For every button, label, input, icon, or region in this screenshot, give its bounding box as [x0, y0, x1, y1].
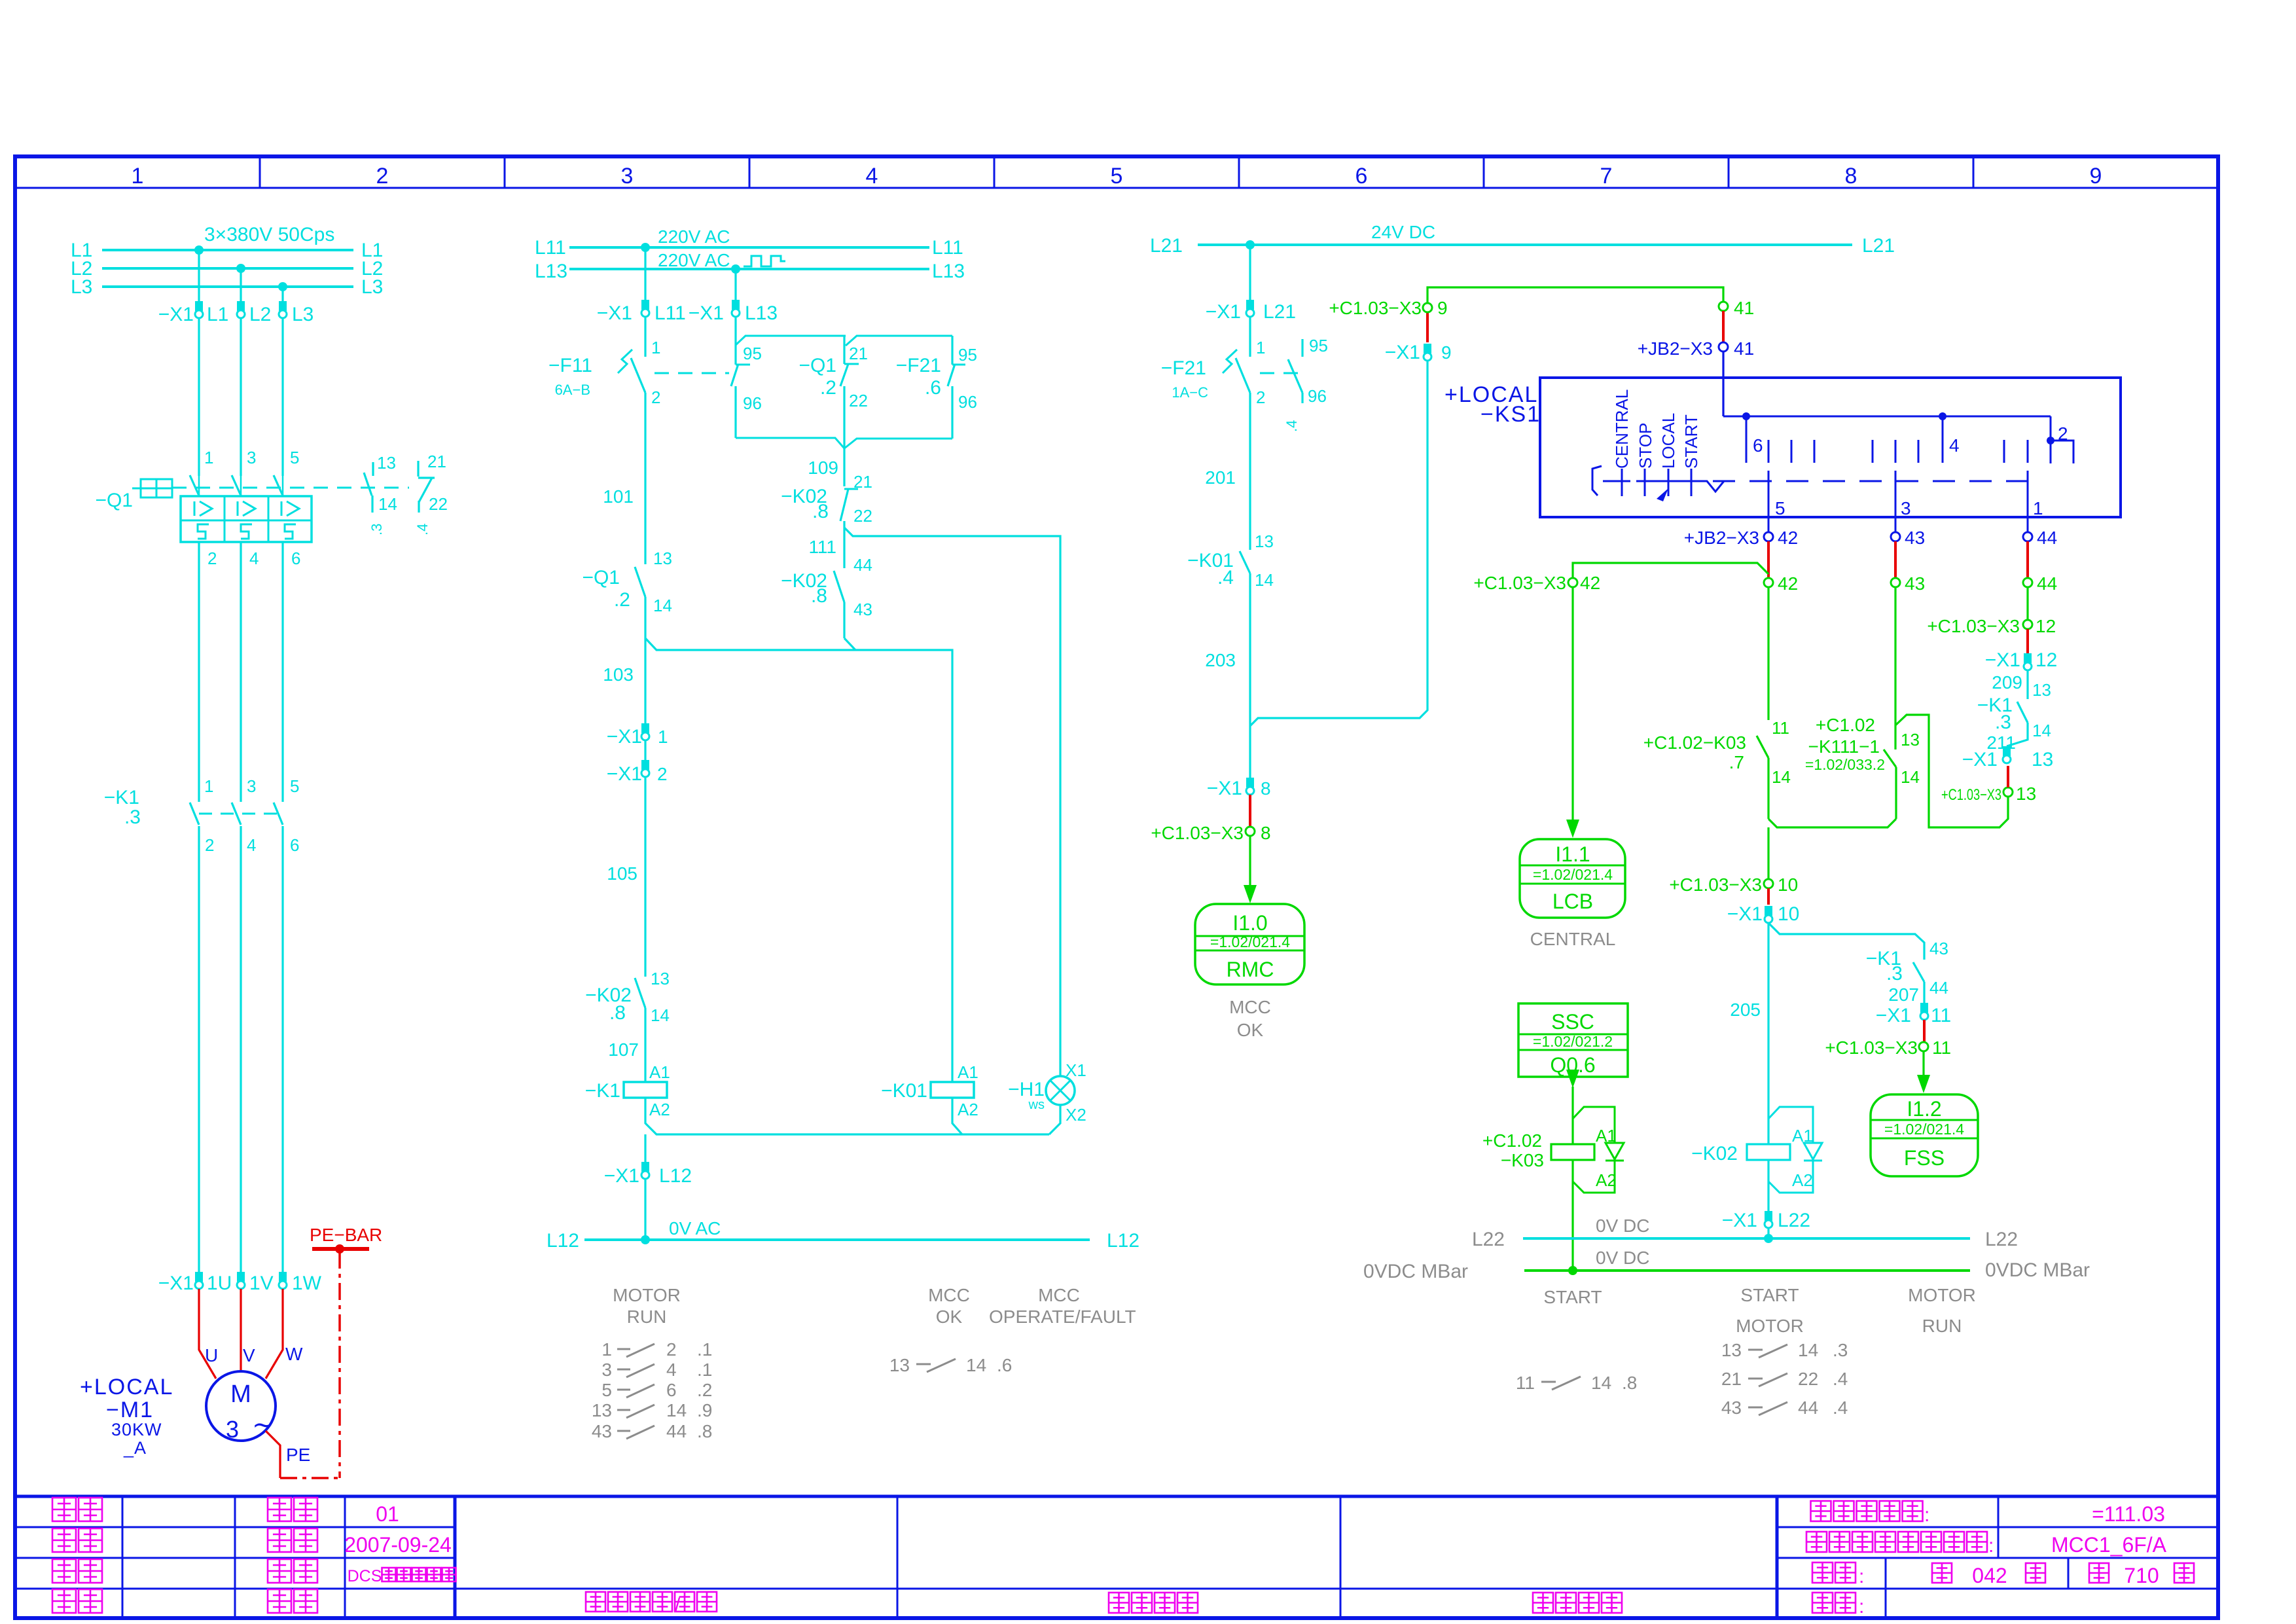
svg-text:13: 13: [1901, 730, 1920, 749]
svg-text:L13: L13: [932, 261, 965, 282]
svg-text:+C1.03−X3: +C1.03−X3: [1941, 786, 2001, 804]
wire phase3 Q1 to K1: [281, 542, 283, 802]
pin2 hook: [2051, 441, 2073, 463]
title row line 1 right: [1777, 1526, 2218, 1528]
svg-text:A2: A2: [1596, 1170, 1617, 1190]
svg-text:3: 3: [601, 1360, 612, 1380]
svg-text:11: 11: [1516, 1373, 1535, 1393]
svg-text:START: START: [1740, 1285, 1799, 1305]
node 13 riser: [1895, 715, 2008, 827]
breaker Q1 trip linkage dashed: [172, 487, 409, 489]
terminal -X1:L1: [195, 301, 203, 311]
junction 0VDC: [1568, 1266, 1577, 1275]
trip hook symbols: [198, 524, 209, 539]
svg-text::: :: [1859, 1596, 1864, 1617]
svg-text:.4: .4: [1283, 420, 1300, 432]
node +JB2-X3:44: [2023, 532, 2032, 541]
relay coil K01: [931, 1082, 974, 1098]
junction L1: [194, 245, 204, 255]
svg-text:MCC: MCC: [1038, 1285, 1080, 1305]
svg-text:44: 44: [1929, 978, 1948, 998]
svg-text:13: 13: [653, 549, 672, 568]
title col x527: [344, 1496, 346, 1618]
svg-text:44: 44: [2037, 573, 2057, 594]
svg-text:OK: OK: [936, 1307, 963, 1327]
F11 trip dashed link: [655, 372, 729, 374]
function box 2 outline: [846, 336, 952, 346]
svg-text:.8: .8: [812, 501, 829, 522]
svg-text:I1.1: I1.1: [1555, 842, 1590, 866]
terminal -X1:1U: [195, 1272, 203, 1282]
svg-text:4: 4: [666, 1360, 677, 1380]
svg-text:/: /: [675, 1595, 681, 1616]
svg-text::: :: [1859, 1566, 1864, 1587]
terminal -X1:L2: [237, 301, 245, 311]
svg-text:L11: L11: [535, 237, 566, 259]
svg-text:21: 21: [849, 344, 868, 363]
cam dashed line: [1603, 480, 2028, 482]
label banben: [268, 1498, 291, 1521]
svg-text:01: 01: [376, 1502, 399, 1526]
svg-text:21: 21: [1721, 1369, 1742, 1389]
bus L12: [584, 1238, 1090, 1241]
svg-text:14: 14: [1255, 570, 1274, 590]
svg-text:2007-09-24: 2007-09-24: [344, 1533, 452, 1557]
svg-text:96: 96: [958, 392, 977, 412]
bus L2: [102, 267, 353, 270]
K03 suppressor diode branch: [1573, 1107, 1615, 1143]
svg-text:107: 107: [608, 1039, 639, 1060]
PLC input block RMC I1.0: [1195, 904, 1304, 984]
svg-text:−K111−1: −K111−1: [1808, 736, 1880, 757]
svg-text:+JB2−X3: +JB2−X3: [1684, 528, 1759, 548]
svg-text:−X1: −X1: [1207, 778, 1242, 799]
svg-text:−X1: −X1: [607, 726, 642, 748]
wire L3 to Q1: [281, 318, 283, 476]
wire K01-A2: [952, 1098, 962, 1134]
svg-text:U: U: [205, 1345, 218, 1365]
title row line 2 right: [1777, 1557, 2218, 1559]
svg-text:=1.02/021.2: =1.02/021.2: [1533, 1033, 1613, 1050]
svg-text:MOTOR: MOTOR: [1736, 1316, 1804, 1336]
jog chamfer from K02-43: [844, 638, 855, 650]
wire K1-A2 to bus: [645, 1098, 1049, 1134]
label riqi: [268, 1528, 291, 1552]
svg-text:207: 207: [1888, 984, 1919, 1005]
svg-text:I1.2: I1.2: [1907, 1097, 1941, 1121]
red link 12: [2026, 629, 2029, 653]
svg-text:−X1: −X1: [158, 1272, 194, 1294]
cable node 42 right: [1764, 578, 1773, 587]
svg-text:A2: A2: [1792, 1170, 1813, 1190]
junction L12: [641, 1235, 650, 1244]
red link 13: [2007, 766, 2009, 787]
node +JB2-X3:41: [1719, 342, 1728, 352]
svg-text:22: 22: [429, 494, 448, 514]
svg-text:14: 14: [1901, 767, 1920, 787]
contactor K1 aux 13-14: [2017, 702, 2028, 723]
svg-text:−K1: −K1: [585, 1080, 620, 1102]
terminal -X1:1: [641, 723, 649, 733]
terminal -X1:12: [2024, 653, 2032, 663]
svg-text:L11: L11: [655, 302, 686, 324]
svg-text:0VDC MBar: 0VDC MBar: [1985, 1259, 2090, 1281]
node +JB2-X3:42: [1764, 532, 1773, 541]
cable node +C1.03-X3:12: [2023, 620, 2032, 629]
svg-text:=111.03: =111.03: [2092, 1502, 2165, 1526]
svg-text:.9: .9: [697, 1400, 712, 1420]
svg-text:10: 10: [1778, 875, 1798, 895]
contactor K1 main contacts: [190, 803, 199, 825]
svg-text:14: 14: [651, 1005, 670, 1025]
svg-text:−F11: −F11: [548, 355, 592, 376]
svg-text:−Q1: −Q1: [95, 490, 133, 511]
selector switch KS1 box: [1540, 378, 2121, 517]
svg-text:8: 8: [1845, 164, 1857, 189]
arrow into RMC: [1244, 885, 1257, 903]
svg-text:L13: L13: [535, 261, 567, 282]
pin1 lower: [2027, 471, 2029, 517]
wire: [644, 740, 646, 760]
cable node 43: [1891, 578, 1900, 587]
junction pin4: [1939, 412, 1946, 420]
svg-text:43: 43: [1905, 573, 1925, 594]
svg-text:2: 2: [657, 764, 668, 784]
svg-text:22: 22: [849, 391, 868, 410]
wire H1-X2: [1049, 1105, 1060, 1134]
svg-text:L21: L21: [1263, 301, 1296, 323]
title col x2881: [1885, 1558, 1887, 1618]
wire 205: [1767, 923, 1769, 1144]
bus L21: [1198, 244, 1852, 246]
jog to X1:9 riser: [1250, 361, 1427, 726]
svg-text:−X1: −X1: [607, 763, 642, 785]
PE-BAR bar: [312, 1247, 369, 1251]
svg-text:+C1.03−X3: +C1.03−X3: [1669, 875, 1762, 895]
svg-text:2: 2: [1256, 388, 1265, 407]
svg-text:+C1.02: +C1.02: [1482, 1130, 1542, 1151]
svg-text:12: 12: [2036, 616, 2056, 636]
svg-text:.3: .3: [1995, 712, 2011, 733]
svg-text:L1: L1: [207, 304, 228, 325]
svg-text:.7: .7: [1729, 752, 1744, 772]
svg-text:14: 14: [966, 1355, 986, 1375]
svg-text:13: 13: [2016, 784, 2036, 804]
svg-text:CENTRAL: CENTRAL: [1530, 929, 1616, 949]
wire 105: [644, 777, 646, 977]
svg-text:L2: L2: [249, 304, 271, 325]
svg-text:L21: L21: [1150, 235, 1183, 257]
svg-text:.3: .3: [368, 524, 385, 535]
svg-text:0V AC: 0V AC: [669, 1218, 721, 1238]
svg-text:96: 96: [743, 393, 762, 413]
bus L22: [1523, 1237, 1970, 1240]
svg-text:14: 14: [653, 596, 672, 615]
header column dividers: [259, 156, 261, 188]
svg-text:2: 2: [666, 1339, 677, 1360]
svg-text:6A−B: 6A−B: [555, 382, 590, 398]
svg-text:M: M: [230, 1380, 251, 1408]
wire L1 to Q1: [198, 318, 200, 476]
svg-text:−K1: −K1: [104, 787, 139, 808]
svg-text:−X1: −X1: [604, 1165, 639, 1187]
svg-text:1U: 1U: [207, 1272, 232, 1294]
bus L3: [102, 285, 353, 288]
svg-text:.3: .3: [1833, 1340, 1848, 1360]
motor wire V red: [240, 1289, 242, 1372]
svg-text:9: 9: [1441, 342, 1452, 363]
junction L21: [1246, 240, 1255, 249]
pin6 stem: [1746, 416, 1748, 463]
svg-text:1: 1: [132, 164, 144, 189]
breaker Q1 aux 21-22 in control: [843, 336, 845, 364]
junction pin6: [1742, 412, 1750, 420]
svg-text:1: 1: [204, 776, 213, 796]
label sheji: [52, 1528, 76, 1552]
svg-text:.8: .8: [609, 1002, 626, 1024]
svg-text:22: 22: [1798, 1369, 1818, 1389]
pin3 lower: [1895, 471, 1897, 517]
cable node +C1.03-X3:9: [1423, 303, 1432, 312]
svg-text:3: 3: [1901, 498, 1911, 518]
svg-text:43: 43: [853, 600, 872, 619]
fuse breaker F21: [1249, 317, 1251, 357]
svg-text:105: 105: [607, 863, 637, 884]
pin5 lower: [1768, 471, 1770, 517]
svg-text:14: 14: [1591, 1373, 1611, 1393]
F11 aux contact 95-96: [734, 317, 736, 365]
title col x2048: [1340, 1496, 1342, 1618]
label company name: [586, 1592, 605, 1612]
red link 10: [1767, 888, 1770, 905]
PE-BAR junction: [335, 1244, 344, 1254]
bus L11: [569, 246, 929, 249]
svg-text:111: 111: [808, 537, 836, 557]
cable node +C1.03-X3:42 left: [1568, 578, 1577, 587]
SSC output arrow: [1566, 1070, 1579, 1088]
wire L1 drop: [198, 250, 200, 301]
svg-text:−X1: −X1: [1206, 301, 1241, 323]
svg-text:13: 13: [889, 1355, 910, 1375]
svg-text:109: 109: [808, 458, 838, 478]
svg-text:START: START: [1681, 414, 1701, 469]
label huitu: [52, 1559, 76, 1583]
svg-text:+C1.03−X3: +C1.03−X3: [1825, 1038, 1918, 1058]
wire L11 drop: [644, 247, 646, 300]
svg-text:14: 14: [2032, 721, 2051, 740]
K1 linkage dashed: [199, 813, 283, 815]
svg-text:13: 13: [2032, 680, 2051, 700]
svg-text:3: 3: [226, 1416, 239, 1443]
svg-text:.3: .3: [1886, 963, 1903, 984]
overload I> symbols: [194, 501, 196, 516]
svg-text:L22: L22: [1985, 1229, 2018, 1250]
svg-text:1: 1: [658, 727, 668, 747]
svg-text:A1: A1: [958, 1062, 978, 1082]
value gong 710 ye: [2089, 1563, 2109, 1583]
svg-text:L3: L3: [292, 304, 314, 325]
terminal -X1:L22: [1765, 1211, 1772, 1221]
svg-text:SSC: SSC: [1551, 1010, 1594, 1034]
svg-text:11: 11: [1931, 1005, 1951, 1026]
bus L13: [569, 268, 929, 270]
svg-text:21: 21: [427, 452, 446, 471]
svg-text:.8: .8: [1622, 1373, 1637, 1393]
svg-text:43: 43: [1905, 528, 1925, 548]
svg-text:FSS: FSS: [1904, 1146, 1945, 1170]
wire to X1:8: [1249, 772, 1251, 778]
motor wire W red: [266, 1289, 283, 1379]
svg-text:RMC: RMC: [1227, 958, 1274, 981]
svg-text:START: START: [1543, 1287, 1602, 1307]
svg-text:211: 211: [1986, 732, 2016, 753]
svg-text:A2: A2: [649, 1100, 670, 1119]
svg-text:−Q1: −Q1: [798, 355, 836, 376]
breaker Q1 aux contact 13-14: [372, 462, 374, 476]
svg-text:−K03: −K03: [1501, 1150, 1544, 1170]
svg-text:+C1.03−X3: +C1.03−X3: [1927, 616, 2020, 636]
svg-text:1: 1: [651, 338, 660, 357]
svg-text:.8: .8: [811, 585, 827, 607]
svg-text:1: 1: [601, 1339, 612, 1360]
red link 41: [1722, 311, 1725, 342]
terminal -X1:1V: [237, 1272, 245, 1282]
cable node +C1.03-X3:13: [2003, 787, 2013, 797]
svg-text:L21: L21: [1862, 235, 1895, 257]
svg-text:RUN: RUN: [1922, 1316, 1962, 1336]
svg-text:710: 710: [2124, 1564, 2159, 1587]
terminal -X1:11: [1920, 1003, 1928, 1013]
red link 42: [1767, 541, 1770, 578]
terminal -X1:L11: [641, 300, 649, 310]
wire to L22: [1767, 1228, 1769, 1238]
wire: [644, 1179, 646, 1240]
svg-text:.2: .2: [820, 377, 836, 399]
svg-text:95: 95: [958, 345, 977, 365]
svg-text:MOTOR: MOTOR: [1908, 1285, 1976, 1305]
svg-text:+JB2−X3: +JB2−X3: [1638, 338, 1713, 359]
svg-text:W: W: [285, 1344, 303, 1364]
svg-text:.3: .3: [124, 806, 141, 828]
K02 suppressor diode branch: [1768, 1107, 1813, 1143]
svg-text:22: 22: [853, 506, 872, 526]
svg-text:13: 13: [1721, 1340, 1742, 1360]
svg-text:101: 101: [603, 486, 634, 507]
svg-text:44: 44: [1798, 1398, 1818, 1418]
green link to 41: [1427, 287, 1723, 303]
wire L13 drop: [734, 269, 736, 300]
svg-text:−F21: −F21: [1161, 357, 1206, 379]
svg-text:RUN: RUN: [627, 1307, 667, 1327]
svg-text:−X1: −X1: [1727, 903, 1763, 925]
svg-text:+C1.03−X3: +C1.03−X3: [1151, 823, 1244, 843]
PE dash-dot link: [280, 1477, 340, 1479]
svg-text:.4: .4: [1217, 567, 1234, 588]
svg-text:.4: .4: [1833, 1369, 1848, 1389]
svg-text:MOTOR: MOTOR: [613, 1285, 681, 1305]
bus L1: [102, 249, 353, 251]
header band line: [15, 187, 2218, 189]
svg-text:2: 2: [207, 549, 217, 568]
svg-text:−X1: −X1: [1722, 1210, 1757, 1231]
indicator lamp H1: [1046, 1076, 1075, 1105]
square wave symbol: [744, 256, 785, 266]
wire down to node 10: [1767, 827, 1769, 879]
relay coil +C1.02-K03: [1551, 1144, 1594, 1160]
svg-text:103: 103: [603, 664, 634, 685]
svg-text:41: 41: [1734, 338, 1754, 359]
svg-text:13: 13: [592, 1400, 612, 1420]
svg-text:.1: .1: [697, 1339, 712, 1360]
PLC input block FSS I1.2: [1871, 1094, 1978, 1176]
svg-text:L22: L22: [1778, 1210, 1810, 1231]
svg-text:−X1: −X1: [1985, 649, 2020, 671]
svg-text:X2: X2: [1066, 1105, 1086, 1125]
wire L3 drop: [281, 287, 283, 301]
wire to L12 terminal: [644, 1134, 646, 1162]
svg-text:2: 2: [651, 388, 660, 407]
svg-text:220V AC: 220V AC: [658, 250, 730, 270]
svg-text:205: 205: [1730, 1000, 1761, 1020]
terminal -X1:2: [641, 760, 649, 770]
label xiugai: [268, 1589, 291, 1613]
red link 44: [2026, 541, 2029, 578]
svg-text:3×380V 50Cps: 3×380V 50Cps: [204, 224, 334, 245]
svg-text:4: 4: [247, 835, 256, 855]
terminal -X1:10: [1765, 906, 1772, 916]
junction L13: [731, 264, 740, 274]
wire 42 to LCB: [1571, 587, 1573, 830]
svg-text:.4: .4: [414, 524, 431, 535]
svg-text:+C1.03−X3: +C1.03−X3: [1329, 298, 1422, 318]
title row line 3 full: [15, 1588, 2218, 1590]
junction L2: [236, 264, 245, 273]
svg-text:−X1: −X1: [1876, 1005, 1911, 1026]
svg-text:.2: .2: [614, 589, 630, 611]
svg-text:24V DC: 24V DC: [1371, 222, 1435, 242]
PE-BAR dash-dot drop: [338, 1252, 341, 1478]
svg-text:12: 12: [2036, 649, 2057, 671]
svg-text:203: 203: [1205, 650, 1236, 670]
svg-text:2: 2: [205, 835, 214, 855]
svg-text:0VDC MBar: 0VDC MBar: [1363, 1261, 1468, 1282]
svg-text:−M1: −M1: [106, 1398, 154, 1422]
svg-text:=1.02/033.2: =1.02/033.2: [1805, 756, 1885, 773]
svg-text:L3: L3: [361, 276, 383, 298]
svg-text:PE−BAR: PE−BAR: [310, 1225, 382, 1245]
svg-text:L22: L22: [1472, 1229, 1505, 1250]
svg-text:CENTRAL: CENTRAL: [1612, 389, 1632, 469]
svg-text:DCS: DCS: [348, 1567, 382, 1585]
svg-text:220V AC: 220V AC: [658, 226, 730, 247]
svg-text:OPERATE/FAULT: OPERATE/FAULT: [989, 1307, 1136, 1327]
wire L2 to Q1: [240, 318, 242, 476]
svg-text:−F21: −F21: [896, 355, 941, 376]
svg-text:MCC: MCC: [928, 1285, 970, 1305]
contactor K1 aux 43-44: [1913, 962, 1924, 982]
motor M1 circle: [206, 1371, 276, 1441]
wire to FSS: [1922, 1051, 1924, 1080]
svg-text:.6: .6: [997, 1355, 1012, 1375]
svg-text:13: 13: [2032, 749, 2053, 770]
svg-text:0V DC: 0V DC: [1596, 1248, 1649, 1268]
svg-text:42: 42: [1778, 573, 1798, 594]
svg-text:3: 3: [247, 776, 256, 796]
svg-text:4: 4: [866, 164, 878, 189]
svg-text:8: 8: [1261, 778, 1271, 799]
red link 11: [1923, 1020, 1926, 1042]
svg-text:L12: L12: [1107, 1230, 1139, 1252]
